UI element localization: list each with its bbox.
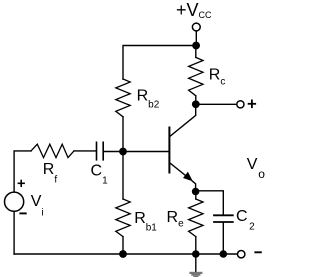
wire: bottom ground rail — [14, 253, 237, 255]
svg-text:Vi: Vi — [31, 193, 44, 218]
terminal: output - open circle — [238, 251, 245, 258]
junction dot: C2 ground node — [220, 250, 228, 258]
polarity sign: Vi + — [18, 180, 25, 187]
svg-text:Rb1: Rb1 — [134, 210, 157, 233]
wire: left input branch vertical (top) — [14, 151, 31, 192]
junction dot: collector node — [192, 100, 200, 108]
resistor Re — [189, 199, 203, 237]
wire: Rb1 top lead from base node — [122, 152, 124, 200]
wire: Rc bottom lead to collector node — [195, 96, 197, 105]
resistor Rf — [31, 144, 74, 157]
wire: Re bottom lead to ground rail — [195, 237, 197, 254]
svg-text:Vo: Vo — [247, 156, 265, 181]
wire: emitter arrow tip to emitter node — [192, 181, 195, 192]
transistor Q1 base bar — [168, 128, 170, 173]
wire: source bottom to ground rail — [13, 211, 15, 254]
polarity sign: Vi - — [19, 212, 26, 214]
terminal: Vcc open circle — [192, 23, 200, 31]
transistor Q1 collector lead — [170, 104, 196, 136]
junction dot: Vcc node — [192, 42, 200, 50]
wire: Rb2 bottom lead to base node — [122, 117, 124, 152]
svg-text:Rf: Rf — [43, 161, 58, 186]
capacitor C1 plate left — [96, 142, 98, 160]
capacitor C1 plate right — [102, 142, 104, 160]
junction dot: Re ground node — [192, 250, 200, 258]
svg-text:C1: C1 — [91, 163, 109, 187]
wire: Rc top lead from Vcc node — [195, 46, 197, 58]
transistor Q1 emitter lead — [170, 163, 189, 178]
wire: C2 bottom to ground rail — [222, 223, 224, 254]
wire: emitter node to C2 branch — [196, 191, 224, 215]
wire: Rf to C1 — [74, 150, 96, 152]
wire: base wire from C1 to transistor — [104, 151, 169, 153]
wire: Re top lead from emitter node — [195, 192, 197, 200]
wire: ground stem — [195, 254, 197, 272]
svg-text:Rb2: Rb2 — [137, 88, 160, 111]
capacitor C2 top plate — [214, 214, 233, 216]
svg-text:+VCC: +VCC — [176, 0, 212, 20]
resistor Rb1 — [116, 199, 130, 237]
polarity sign: output + — [248, 100, 256, 109]
junction dot: emitter node — [192, 188, 200, 196]
junction dot: Rb1 ground node — [119, 250, 127, 258]
wire: collector node to output terminal — [196, 103, 237, 105]
svg-text:Re: Re — [167, 209, 185, 230]
svg-text:C2: C2 — [236, 208, 255, 232]
wire: Vcc terminal to top node — [195, 31, 197, 45]
svg-text:Rc: Rc — [209, 66, 226, 87]
polarity sign: output - — [254, 251, 261, 253]
transistor Q1 emitter arrowhead — [183, 172, 193, 182]
capacitor C2 bottom plate — [214, 221, 233, 223]
resistor Rc — [189, 57, 203, 95]
source Vi circle — [5, 192, 24, 211]
terminal: output + open circle — [237, 101, 244, 108]
resistor Rb2 — [116, 79, 130, 117]
wire: top horizontal (Rb2 corner to Vcc node) — [123, 46, 196, 80]
wire: Rb1 bottom lead to ground rail — [122, 237, 124, 254]
junction dot: base node — [119, 148, 127, 156]
ground symbol — [189, 272, 202, 277]
